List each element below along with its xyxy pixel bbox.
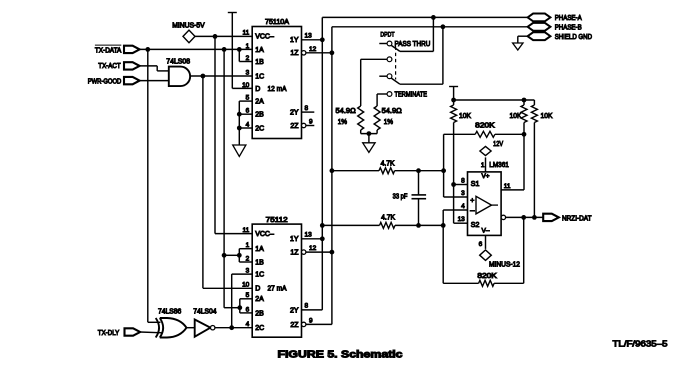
svg-text:1%: 1% <box>338 119 347 126</box>
svg-text:74LS08: 74LS08 <box>166 58 190 65</box>
svg-text:VCC–: VCC– <box>255 34 274 41</box>
svg-text:PHASE-A: PHASE-A <box>555 15 582 22</box>
svg-text:2Z: 2Z <box>290 322 299 329</box>
svg-text:8: 8 <box>461 178 465 185</box>
svg-text:1: 1 <box>481 162 485 169</box>
svg-text:2B: 2B <box>255 112 264 119</box>
svg-text:MINUS-5V: MINUS-5V <box>172 22 205 29</box>
svg-text:–: – <box>470 206 475 215</box>
svg-text:54.9Ω: 54.9Ω <box>336 108 356 115</box>
svg-text:33 pF: 33 pF <box>393 194 408 201</box>
svg-text:8: 8 <box>305 303 309 310</box>
svg-text:2Z: 2Z <box>290 123 299 130</box>
svg-text:1C: 1C <box>255 272 264 279</box>
svg-text:1Z: 1Z <box>290 250 299 257</box>
svg-text:12V: 12V <box>493 141 503 148</box>
svg-text:2C: 2C <box>255 125 264 132</box>
svg-text:820K: 820K <box>477 273 497 280</box>
svg-text:PASS THRU: PASS THRU <box>395 41 431 48</box>
svg-text:SHIELD GND: SHIELD GND <box>555 34 592 41</box>
svg-text:TX-DLY: TX-DLY <box>98 330 120 337</box>
svg-text:2C: 2C <box>255 325 264 332</box>
svg-text:PWR-GOOD: PWR-GOOD <box>88 79 122 86</box>
svg-text:820K: 820K <box>475 122 495 129</box>
svg-text:TL/F/9635–5: TL/F/9635–5 <box>613 339 668 349</box>
svg-text:10K: 10K <box>510 113 522 120</box>
svg-text:1Y: 1Y <box>290 37 299 44</box>
svg-text:1B: 1B <box>255 259 264 266</box>
svg-text:74LS86: 74LS86 <box>158 308 181 315</box>
svg-text:9: 9 <box>309 119 313 126</box>
svg-text:12: 12 <box>309 46 317 53</box>
svg-text:LM361: LM361 <box>489 162 509 169</box>
svg-text:11: 11 <box>504 183 511 190</box>
svg-text:12 mA: 12 mA <box>268 86 287 93</box>
svg-text:V–: V– <box>482 228 490 235</box>
svg-text:TX-ACT: TX-ACT <box>98 63 121 70</box>
svg-text:2A: 2A <box>255 296 264 303</box>
svg-text:1A: 1A <box>255 47 264 54</box>
svg-text:54.9Ω: 54.9Ω <box>382 108 402 115</box>
svg-text:DPDT: DPDT <box>380 32 394 39</box>
svg-text:12: 12 <box>309 245 317 252</box>
svg-text:1A: 1A <box>255 246 264 253</box>
svg-text:S2: S2 <box>471 222 480 229</box>
svg-text:10K: 10K <box>541 113 553 120</box>
svg-text:D: D <box>255 286 260 293</box>
svg-text:TX-DATA: TX-DATA <box>95 47 122 54</box>
svg-text:8: 8 <box>305 105 309 112</box>
svg-text:1C: 1C <box>255 73 264 80</box>
svg-text:4.7K: 4.7K <box>381 161 395 168</box>
svg-text:27 mA: 27 mA <box>268 286 287 293</box>
svg-text:13: 13 <box>305 33 313 40</box>
svg-text:1Z: 1Z <box>290 50 299 57</box>
svg-text:13: 13 <box>305 232 313 239</box>
svg-text:4: 4 <box>461 203 465 210</box>
svg-text:PHASE-B: PHASE-B <box>555 25 582 32</box>
svg-text:3: 3 <box>461 190 465 197</box>
svg-text:9: 9 <box>309 318 313 325</box>
svg-text:6: 6 <box>479 241 483 248</box>
svg-text:1B: 1B <box>255 59 264 66</box>
svg-text:1Y: 1Y <box>290 236 299 243</box>
svg-text:2Y: 2Y <box>290 307 299 314</box>
svg-text:75112: 75112 <box>266 217 288 224</box>
svg-text:D: D <box>255 86 260 93</box>
svg-text:2Y: 2Y <box>290 110 299 117</box>
svg-text:S1: S1 <box>471 181 480 188</box>
svg-text:4.7K: 4.7K <box>381 214 395 221</box>
svg-text:1%: 1% <box>384 119 393 126</box>
svg-text:VCC–: VCC– <box>255 231 274 238</box>
svg-text:V+: V+ <box>482 173 490 180</box>
svg-text:MINUS-12: MINUS-12 <box>489 261 520 268</box>
svg-text:FIGURE 5. Schematic: FIGURE 5. Schematic <box>278 350 404 361</box>
svg-text:10K: 10K <box>459 113 471 120</box>
svg-text:74LS04: 74LS04 <box>193 308 216 315</box>
svg-text:11: 11 <box>243 30 250 37</box>
svg-text:13: 13 <box>458 216 466 223</box>
svg-text:2A: 2A <box>255 99 264 106</box>
svg-text:2B: 2B <box>255 310 264 317</box>
svg-text:TERMINATE: TERMINATE <box>395 91 428 98</box>
svg-text:+: + <box>470 198 474 205</box>
svg-text:75110A: 75110A <box>265 19 289 26</box>
svg-text:NRZI-DAT: NRZI-DAT <box>562 215 592 222</box>
